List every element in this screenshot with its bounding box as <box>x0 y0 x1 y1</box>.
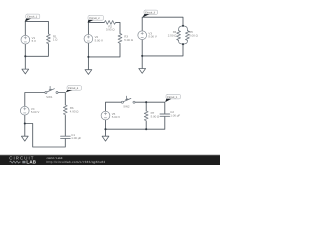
svg-text:Circuit_5: Circuit_5 <box>167 96 178 99</box>
svg-text:3.93 Ω: 3.93 Ω <box>106 28 115 32</box>
svg-text:LAB: LAB <box>26 160 36 165</box>
svg-text:Circuit_4: Circuit_4 <box>68 87 79 90</box>
svg-text:5.00 V: 5.00 V <box>112 115 120 119</box>
svg-text:http://circuitlab.com/c/7383/q: http://circuitlab.com/c/7383/qg6hu82 <box>47 160 106 164</box>
svg-text:5.00 Ω: 5.00 Ω <box>151 114 160 118</box>
svg-text:5.00 V: 5.00 V <box>31 110 39 114</box>
svg-text:Circuit_2: Circuit_2 <box>89 17 100 20</box>
svg-text:5.00 Ω: 5.00 Ω <box>124 38 133 42</box>
svg-text:5 V: 5 V <box>32 39 36 43</box>
svg-text:SW1: SW1 <box>46 95 53 99</box>
svg-text:1.00 μF: 1.00 μF <box>71 136 81 140</box>
svg-text:2.50 Ω: 2.50 Ω <box>168 34 177 38</box>
svg-text:Circuit_1: Circuit_1 <box>27 16 38 19</box>
svg-text:4.93 Ω: 4.93 Ω <box>70 109 79 113</box>
svg-text:5.00 V: 5.00 V <box>148 35 156 39</box>
svg-text:5.00 Ω: 5.00 Ω <box>189 34 198 38</box>
svg-text:5.00 V: 5.00 V <box>95 38 103 42</box>
svg-text:1.00 μF: 1.00 μF <box>170 113 180 117</box>
svg-text:Circuit_3: Circuit_3 <box>145 12 156 15</box>
svg-text:SW2: SW2 <box>123 105 130 109</box>
